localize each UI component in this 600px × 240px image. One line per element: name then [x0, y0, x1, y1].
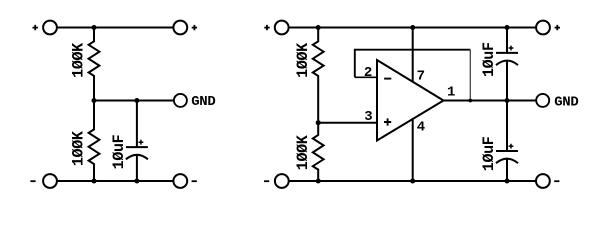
junction dot right bottom rail at pin 4 wire	[410, 179, 415, 184]
terminal circle bottom-right (- out)	[173, 174, 187, 188]
wire: right circuit top rail	[289, 27, 536, 29]
svg-text:1ØuF: 1ØuF	[480, 42, 498, 77]
terminal circle right circuit top-left (+ in)	[275, 21, 289, 35]
capacitor C3 bottom lead wire	[506, 159, 508, 181]
resistor R1 100K (left top)	[89, 28, 100, 101]
minus sign at right circuit bottom-right terminal	[554, 180, 559, 182]
op-amp non-inverting input plus symbol	[384, 118, 391, 125]
minus sign at left circuit bottom-left terminal	[30, 180, 35, 182]
capacitor C3 polarity plus	[509, 144, 514, 149]
capacitor C2 polarity plus	[509, 46, 514, 51]
capacitor C2 bottom lead wire	[506, 61, 508, 101]
minus sign at right circuit bottom-left terminal	[264, 180, 269, 182]
plus sign at left circuit top-right terminal	[192, 25, 197, 30]
junction dot right top rail at R3	[316, 25, 321, 30]
plus sign at right circuit top-right terminal	[555, 25, 560, 30]
svg-text:GND: GND	[191, 94, 215, 110]
wire: pin 3 stub from divider node to op-amp	[318, 122, 377, 124]
terminal circle GND right circuit	[536, 94, 549, 107]
capacitor C3 positive plate	[496, 150, 518, 152]
wire: pin 2 stub	[355, 76, 377, 78]
resistor R4 100K (right bottom)	[313, 123, 324, 181]
resistor R2 100K (left bottom)	[89, 101, 100, 182]
junction dot left mid rail at C1	[134, 98, 139, 103]
capacitor C3 curved plate	[496, 159, 518, 164]
svg-text:1ØuF: 1ØuF	[110, 135, 128, 170]
junction dot right bottom rail at R4	[316, 179, 321, 184]
capacitor C1 positive plate	[126, 146, 148, 148]
junction dot left bottom rail at C1	[134, 179, 139, 184]
capacitor C1 polarity plus	[139, 140, 144, 145]
capacitor C2 curved plate	[496, 61, 518, 66]
junction dot feedback at output	[468, 99, 472, 103]
junction dot left top rail	[92, 25, 97, 30]
junction dot left bottom rail at R2	[92, 179, 97, 184]
terminal circle right circuit bottom-left (- in)	[275, 174, 289, 188]
terminal circle GND left circuit	[174, 94, 187, 107]
capacitor C1 10uF top lead wire	[136, 101, 138, 148]
wire: feedback loop left vertical	[354, 50, 356, 78]
wire: V+ pin 7 from top rail into op-amp	[412, 28, 414, 82]
capacitor C2 positive plate	[496, 52, 518, 54]
capacitor C2 10uF top lead wire	[506, 28, 508, 53]
svg-text:1ØØK: 1ØØK	[294, 42, 312, 78]
svg-text:3: 3	[364, 109, 372, 125]
plus sign at left circuit top-left terminal	[33, 25, 38, 30]
svg-text:1ØØK: 1ØØK	[69, 130, 87, 166]
capacitor C1 curved plate	[126, 155, 148, 160]
svg-text:1ØuF: 1ØuF	[480, 136, 498, 171]
terminal circle right circuit bottom-right (- out)	[536, 174, 550, 188]
junction dot right top rail at pin 7 wire	[410, 25, 415, 30]
wire: left circuit mid (GND) rail	[94, 100, 174, 102]
op-amp U1 triangle	[377, 60, 444, 141]
wire: left circuit top rail	[57, 27, 173, 29]
wire: V- pin 4 from op-amp to bottom rail	[412, 120, 414, 181]
svg-text:4: 4	[417, 120, 425, 136]
svg-text:2: 2	[364, 65, 372, 81]
junction dot right top rail at C2	[505, 25, 510, 30]
terminal circle top-right (+ out)	[173, 21, 187, 35]
svg-text:1ØØK: 1ØØK	[69, 42, 87, 78]
junction dot output rail at C2/C3	[505, 98, 510, 103]
wire: op-amp output to GND terminal	[444, 100, 537, 102]
plus sign at right circuit top-left terminal	[264, 25, 269, 30]
capacitor C1 bottom lead wire	[136, 155, 138, 181]
junction dot left mid rail at R1/R2	[92, 98, 97, 103]
svg-text:1: 1	[447, 85, 455, 101]
wire: feedback loop top horizontal	[354, 49, 470, 51]
terminal circle top-left (+ in)	[43, 21, 57, 35]
capacitor C3 10uF top lead wire	[506, 101, 508, 152]
minus sign at left circuit bottom-right terminal	[192, 180, 197, 182]
op-amp inverting input minus symbol	[384, 78, 391, 80]
svg-text:GND: GND	[554, 95, 578, 111]
wire: right circuit bottom rail	[289, 180, 536, 182]
wire: feedback loop right vertical down to output	[469, 50, 471, 101]
junction dot divider node at pin 3	[316, 120, 321, 125]
resistor R3 100K (right top)	[313, 28, 324, 123]
terminal circle bottom-left (- in)	[43, 174, 57, 188]
svg-text:1ØØK: 1ØØK	[294, 135, 312, 171]
terminal circle right circuit top-right (+ out)	[536, 21, 550, 35]
wire: left circuit bottom rail	[57, 180, 173, 182]
junction dot right bottom rail at C3	[505, 179, 510, 184]
svg-text:7: 7	[417, 69, 425, 85]
